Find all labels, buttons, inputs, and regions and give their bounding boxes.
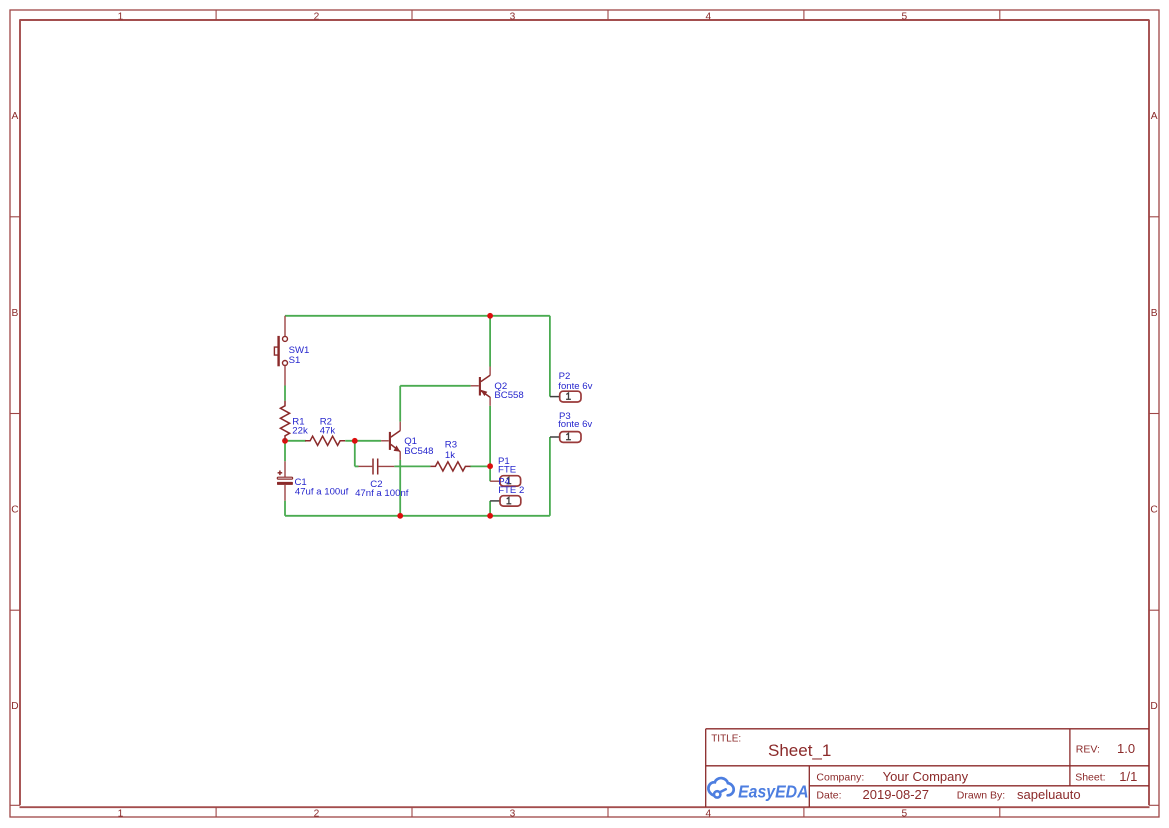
- svg-text:Company:: Company:: [816, 771, 864, 783]
- svg-text:1k: 1k: [445, 450, 455, 461]
- svg-text:47k: 47k: [320, 426, 336, 437]
- svg-text:EasyEDA: EasyEDA: [738, 782, 808, 802]
- svg-text:D: D: [1150, 701, 1157, 712]
- svg-text:1: 1: [118, 11, 124, 22]
- svg-text:2: 2: [314, 11, 320, 22]
- svg-text:R3: R3: [445, 439, 457, 450]
- svg-text:Your Company: Your Company: [883, 769, 969, 784]
- svg-text:5: 5: [901, 809, 907, 820]
- svg-text:Sheet:: Sheet:: [1075, 771, 1105, 783]
- svg-text:C: C: [11, 505, 18, 516]
- svg-text:1.0: 1.0: [1117, 741, 1135, 756]
- svg-text:FTE 2: FTE 2: [498, 485, 524, 496]
- svg-text:fonte 6v: fonte 6v: [558, 419, 592, 430]
- svg-text:A: A: [12, 111, 19, 122]
- svg-text:1/1: 1/1: [1119, 769, 1137, 784]
- svg-text:Drawn By:: Drawn By:: [957, 789, 1005, 801]
- svg-text:4: 4: [705, 11, 711, 22]
- svg-text:A: A: [1151, 111, 1158, 122]
- svg-text:2: 2: [314, 809, 320, 820]
- svg-text:B: B: [1151, 308, 1158, 319]
- svg-text:C: C: [1150, 505, 1157, 516]
- svg-text:3: 3: [510, 809, 516, 820]
- svg-text:fonte 6v: fonte 6v: [558, 381, 592, 392]
- svg-text:S1: S1: [289, 355, 301, 366]
- svg-text:TITLE:: TITLE:: [711, 734, 741, 745]
- svg-text:REV:: REV:: [1076, 744, 1100, 756]
- svg-text:FTE: FTE: [498, 465, 516, 476]
- svg-text:1: 1: [118, 809, 124, 820]
- svg-text:Sheet_1: Sheet_1: [768, 741, 831, 760]
- svg-text:BC548: BC548: [404, 446, 433, 457]
- svg-text:5: 5: [901, 11, 907, 22]
- svg-text:3: 3: [510, 11, 516, 22]
- svg-text:2019-08-27: 2019-08-27: [863, 787, 930, 802]
- svg-text:47uf a 100uf: 47uf a 100uf: [295, 487, 349, 498]
- svg-text:D: D: [11, 701, 18, 712]
- svg-text:sapeluauto: sapeluauto: [1017, 787, 1081, 802]
- svg-text:22k: 22k: [292, 426, 308, 437]
- svg-text:4: 4: [705, 809, 711, 820]
- svg-text:B: B: [12, 308, 19, 319]
- svg-text:47nf a 100nf: 47nf a 100nf: [355, 488, 409, 499]
- svg-text:Date:: Date:: [816, 789, 841, 801]
- svg-text:BC558: BC558: [494, 390, 523, 401]
